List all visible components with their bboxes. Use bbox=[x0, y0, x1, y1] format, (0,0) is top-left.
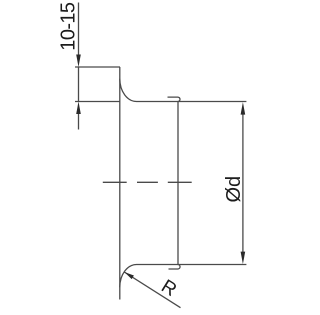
svg-text:Ød: Ød bbox=[223, 176, 245, 203]
svg-text:10-15: 10-15 bbox=[58, 2, 80, 51]
